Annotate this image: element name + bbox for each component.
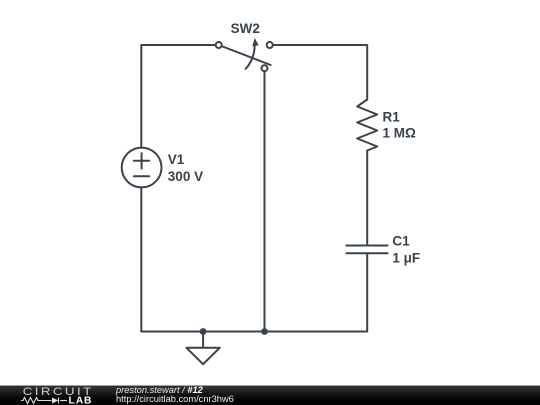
- svg-text:1 μF: 1 μF: [392, 251, 420, 266]
- svg-text:300 V: 300 V: [168, 169, 203, 184]
- svg-text:1 MΩ: 1 MΩ: [383, 126, 417, 141]
- svg-text:R1: R1: [383, 110, 401, 125]
- svg-text:SW2: SW2: [231, 21, 260, 36]
- svg-text:LAB: LAB: [69, 396, 93, 405]
- svg-text:C1: C1: [392, 234, 410, 249]
- svg-text:V1: V1: [168, 152, 185, 167]
